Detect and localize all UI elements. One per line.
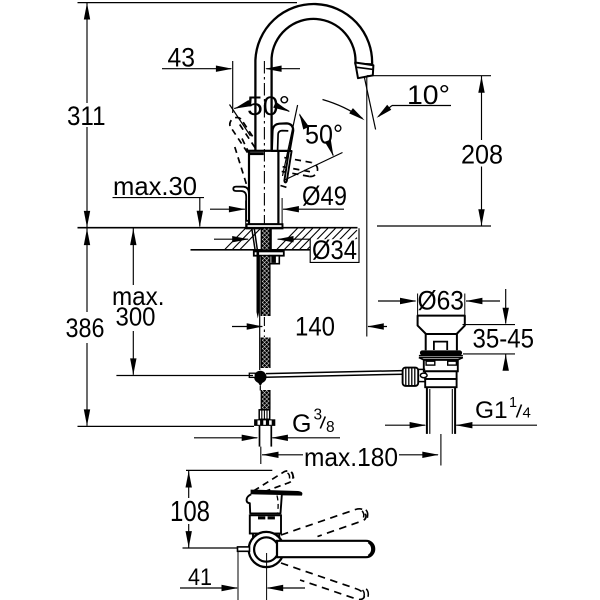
drain neck bbox=[425, 334, 427, 350]
front view: cartridge collar bbox=[250, 515, 281, 533]
svg-text:4: 4 bbox=[523, 405, 531, 422]
dimension G1 1/4 bbox=[385, 424, 425, 426]
threaded mounting stud bbox=[256, 252, 259, 312]
dimension 108 bbox=[186, 469, 272, 471]
body top dark seam bbox=[250, 152, 264, 155]
svg-text:208: 208 bbox=[461, 139, 503, 169]
hose connection tube bbox=[259, 426, 261, 447]
front view: dashed lever rotated up bbox=[281, 509, 366, 537]
dimension 140 bbox=[232, 326, 262, 328]
svg-text:50°: 50° bbox=[247, 91, 290, 121]
spout aerator outlet bbox=[355, 63, 373, 79]
horizontal actuating rod to drain bbox=[266, 371, 403, 374]
hose ferrule bbox=[259, 410, 270, 420]
outlet vertical extension line bbox=[366, 77, 368, 337]
flexible hose braided segment 2 bbox=[261, 256, 270, 316]
rubber seal washer bbox=[420, 350, 462, 355]
svg-text:Ø49: Ø49 bbox=[302, 181, 347, 211]
dimension 386 bbox=[86, 228, 88, 312]
dimension 311 bbox=[78, 2, 298, 4]
svg-text:G: G bbox=[292, 410, 311, 438]
svg-text:1: 1 bbox=[509, 395, 517, 411]
dimension max.180 bbox=[262, 454, 303, 456]
dimension 41 bbox=[237, 552, 239, 600]
flexible hose braided segment 1 bbox=[261, 229, 270, 250]
svg-text:50°: 50° bbox=[305, 120, 343, 150]
swivel arc with arrowhead bbox=[323, 100, 363, 119]
svg-text:311: 311 bbox=[67, 101, 106, 131]
deck hatching bbox=[225, 228, 357, 249]
svg-text:8: 8 bbox=[326, 419, 335, 436]
countertop deck section bbox=[78, 227, 358, 229]
max.300 reference line bbox=[116, 375, 253, 377]
tube edge extension bbox=[260, 447, 262, 464]
boss connector bbox=[418, 368, 425, 370]
drain lift bump bbox=[434, 342, 447, 350]
drain tailpipe G1 1/4 bbox=[426, 387, 428, 434]
pop-up pull rod knob bbox=[233, 187, 249, 221]
handle axis lines bbox=[230, 105, 251, 137]
svg-text:108: 108 bbox=[170, 496, 210, 528]
svg-text:G1: G1 bbox=[475, 397, 508, 424]
drain body tube bbox=[425, 371, 456, 379]
dimension diameter 49 bbox=[245, 201, 247, 230]
faucet body bbox=[249, 151, 278, 225]
dimension diameter 63 bbox=[417, 294, 419, 323]
flexible hose braided segment 4 bbox=[261, 390, 270, 410]
flexible hose braided segment 3 bbox=[261, 338, 270, 369]
svg-text:max.30: max.30 bbox=[113, 171, 197, 201]
handle lever (solid) bbox=[272, 123, 293, 150]
escutcheon base plate bbox=[247, 224, 283, 228]
front view: handle paddle (solid) bbox=[251, 490, 302, 495]
front view: dashed handle up position bbox=[254, 471, 294, 493]
drain flange Ø63 bbox=[418, 316, 465, 334]
handle lever rotated right (dashed) bbox=[281, 158, 318, 189]
rod ball joint boss bbox=[403, 368, 419, 386]
handle lever rotated left (dashed) bbox=[230, 118, 265, 185]
50 deg arc right with arrowheads bbox=[300, 115, 303, 123]
svg-text:35-45: 35-45 bbox=[473, 324, 535, 354]
hose nut G3/8 bbox=[254, 419, 275, 426]
svg-text:300: 300 bbox=[116, 301, 156, 331]
10 deg tilted outlet line bbox=[364, 77, 375, 130]
centerline segment in gap bbox=[263, 317, 265, 337]
spout gooseneck tube bbox=[255, 4, 372, 151]
dimension 208 bbox=[367, 75, 491, 77]
386 reference line (hose end) bbox=[78, 425, 255, 427]
pull rod ball junction bbox=[254, 371, 266, 383]
svg-text:max.180: max.180 bbox=[304, 442, 398, 472]
mounting nut offset bbox=[270, 256, 280, 264]
dimension diameter 34 (deck hole) bbox=[214, 238, 248, 240]
svg-text:41: 41 bbox=[188, 564, 212, 591]
svg-text:43: 43 bbox=[168, 43, 196, 73]
svg-text:386: 386 bbox=[66, 313, 105, 343]
svg-text:140: 140 bbox=[295, 312, 335, 342]
front view: pivot ring bbox=[249, 532, 284, 567]
drain centerline extension bbox=[440, 434, 442, 466]
dimension max.300 bbox=[132, 228, 134, 285]
dimension 43 bbox=[232, 61, 234, 113]
mounting washer plate bbox=[254, 251, 284, 255]
dimension G 3/8 bbox=[194, 437, 257, 439]
svg-text:10°: 10° bbox=[407, 80, 450, 110]
front view: body below collar bbox=[252, 534, 254, 539]
pull rod below deck bbox=[259, 256, 261, 370]
front view: pull rod tab bbox=[238, 547, 250, 551]
front view: dashed lever rotated down bbox=[281, 563, 365, 600]
shank through deck hole bbox=[252, 229, 255, 250]
50 deg arc left with arrowheads bbox=[234, 106, 245, 109]
svg-text:Ø63: Ø63 bbox=[418, 286, 465, 316]
svg-text:3: 3 bbox=[314, 407, 323, 424]
svg-text:Ø34: Ø34 bbox=[312, 235, 357, 265]
front view: lever bar horizontal bbox=[277, 541, 374, 557]
10 deg label and leader bbox=[392, 105, 451, 107]
drain locknut bbox=[424, 360, 458, 371]
dimension 35-45 bbox=[463, 324, 516, 326]
washer flange band bbox=[419, 355, 463, 357]
clevis left of ball bbox=[249, 373, 255, 377]
handle lever lower tail bbox=[284, 151, 291, 182]
faucet centerline bbox=[263, 61, 265, 228]
